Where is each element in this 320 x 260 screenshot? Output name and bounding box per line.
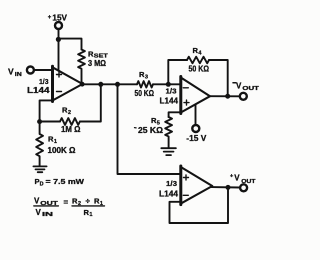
svg-text:1/3: 1/3 bbox=[166, 87, 177, 96]
svg-text:V: V bbox=[236, 81, 242, 90]
svg-text:V: V bbox=[234, 173, 240, 182]
svg-text:÷: ÷ bbox=[86, 197, 91, 206]
svg-text:3 MΩ: 3 MΩ bbox=[88, 59, 107, 68]
wire R4 left leg bbox=[168, 60, 187, 84]
svg-text:L144: L144 bbox=[27, 86, 50, 95]
svg-text:100K Ω: 100K Ω bbox=[48, 146, 77, 155]
formula gain equation bbox=[34, 197, 103, 219]
wire U3 feedback loop bbox=[170, 187, 229, 223]
svg-text:L144: L144 bbox=[160, 97, 179, 106]
junction buffer tap node bbox=[115, 82, 120, 87]
svg-text:1/3: 1/3 bbox=[166, 179, 177, 188]
svg-text:=: = bbox=[64, 198, 69, 207]
svg-text:1M Ω: 1M Ω bbox=[61, 125, 81, 134]
ground R5 bbox=[161, 148, 176, 155]
wire U3 output to +VOUT bbox=[212, 186, 240, 188]
resistor R3 bbox=[137, 81, 153, 87]
svg-text:+: + bbox=[48, 15, 52, 21]
wire U1 inverting input feedback bbox=[40, 100, 53, 121]
svg-text:V: V bbox=[34, 197, 40, 206]
terminal VIN bbox=[27, 67, 34, 74]
resistor R2 bbox=[60, 118, 80, 125]
svg-text:V: V bbox=[8, 66, 14, 76]
resistor R1 bbox=[36, 122, 43, 166]
svg-text:OUT: OUT bbox=[242, 86, 259, 92]
junction -VOUT node bbox=[225, 94, 230, 99]
svg-text:50 KΩ: 50 KΩ bbox=[135, 89, 155, 98]
svg-text:IN: IN bbox=[42, 212, 53, 218]
resistor RSET bbox=[78, 50, 85, 85]
terminal +15V bbox=[55, 22, 62, 29]
wire R3 to U2 inverting input bbox=[153, 83, 181, 85]
label -VOUT bbox=[233, 82, 236, 84]
wire +15V down to junction bbox=[58, 30, 60, 40]
wire U2 output to -VOUT bbox=[210, 95, 240, 97]
junction +15V node bbox=[56, 37, 61, 42]
wire R2 to feedback riser bbox=[80, 84, 101, 121]
wire R4 right leg bbox=[209, 60, 228, 96]
wire VIN to U1 noninverting input bbox=[34, 69, 52, 71]
wire V+ supply into op-amp U1 bbox=[58, 39, 60, 70]
wire node A to R2 bbox=[40, 121, 60, 123]
wire U2 noninverting input to R5 bbox=[169, 112, 181, 117]
svg-text:1/3: 1/3 bbox=[39, 77, 49, 86]
wire +15V junction to RSET top bbox=[58, 39, 81, 50]
resistor R4 bbox=[187, 57, 209, 64]
junction feedback node on U1 output bbox=[98, 82, 103, 87]
terminal -15V bbox=[192, 125, 199, 132]
svg-text:= 7.5 mW: = 7.5 mW bbox=[46, 177, 85, 186]
svg-text:2: 2 bbox=[68, 110, 71, 116]
tick mark before 25 KΩ bbox=[135, 127, 137, 129]
terminal +VOUT bbox=[240, 184, 247, 191]
svg-text:1: 1 bbox=[54, 139, 57, 145]
junction node A (R1/R2) bbox=[37, 119, 42, 124]
junction U1 output / RSET node bbox=[80, 82, 85, 87]
svg-text:3: 3 bbox=[145, 74, 148, 80]
formula fraction bars bbox=[34, 205, 105, 207]
op-amp U2 bbox=[181, 77, 210, 114]
svg-text:IN: IN bbox=[15, 72, 22, 78]
resistor R5 bbox=[165, 117, 172, 148]
terminal -VOUT bbox=[240, 93, 247, 100]
wire buffer tap down to U3 input bbox=[118, 84, 181, 174]
svg-text:L144: L144 bbox=[159, 190, 179, 199]
wire U1 output to R3 bbox=[83, 83, 138, 85]
svg-text:50 KΩ: 50 KΩ bbox=[189, 64, 210, 73]
wire -15V supply to U2 bbox=[195, 105, 197, 125]
svg-text:1: 1 bbox=[89, 212, 92, 218]
svg-text:V: V bbox=[36, 208, 42, 217]
svg-text:25 KΩ: 25 KΩ bbox=[138, 126, 164, 135]
svg-text:D: D bbox=[40, 182, 44, 188]
ground R1 bbox=[33, 166, 46, 172]
svg-text:15V: 15V bbox=[52, 13, 67, 22]
op-amp U1 bbox=[53, 66, 83, 101]
junction R4 tap node bbox=[166, 82, 171, 87]
svg-text:OUT: OUT bbox=[241, 179, 256, 185]
svg-text:-15 V: -15 V bbox=[186, 134, 207, 143]
junction U3 feedback node bbox=[226, 185, 231, 190]
op-amp U3 bbox=[181, 166, 213, 205]
